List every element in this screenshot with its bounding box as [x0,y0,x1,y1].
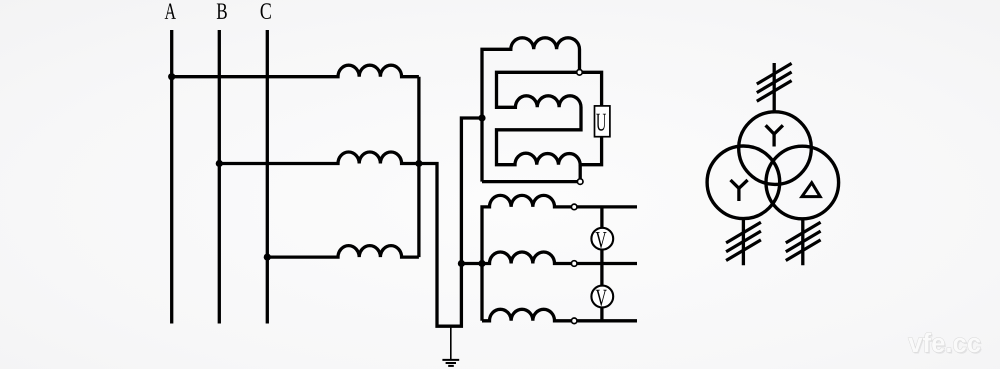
svg-text:vfe.cc: vfe.cc [908,328,981,358]
